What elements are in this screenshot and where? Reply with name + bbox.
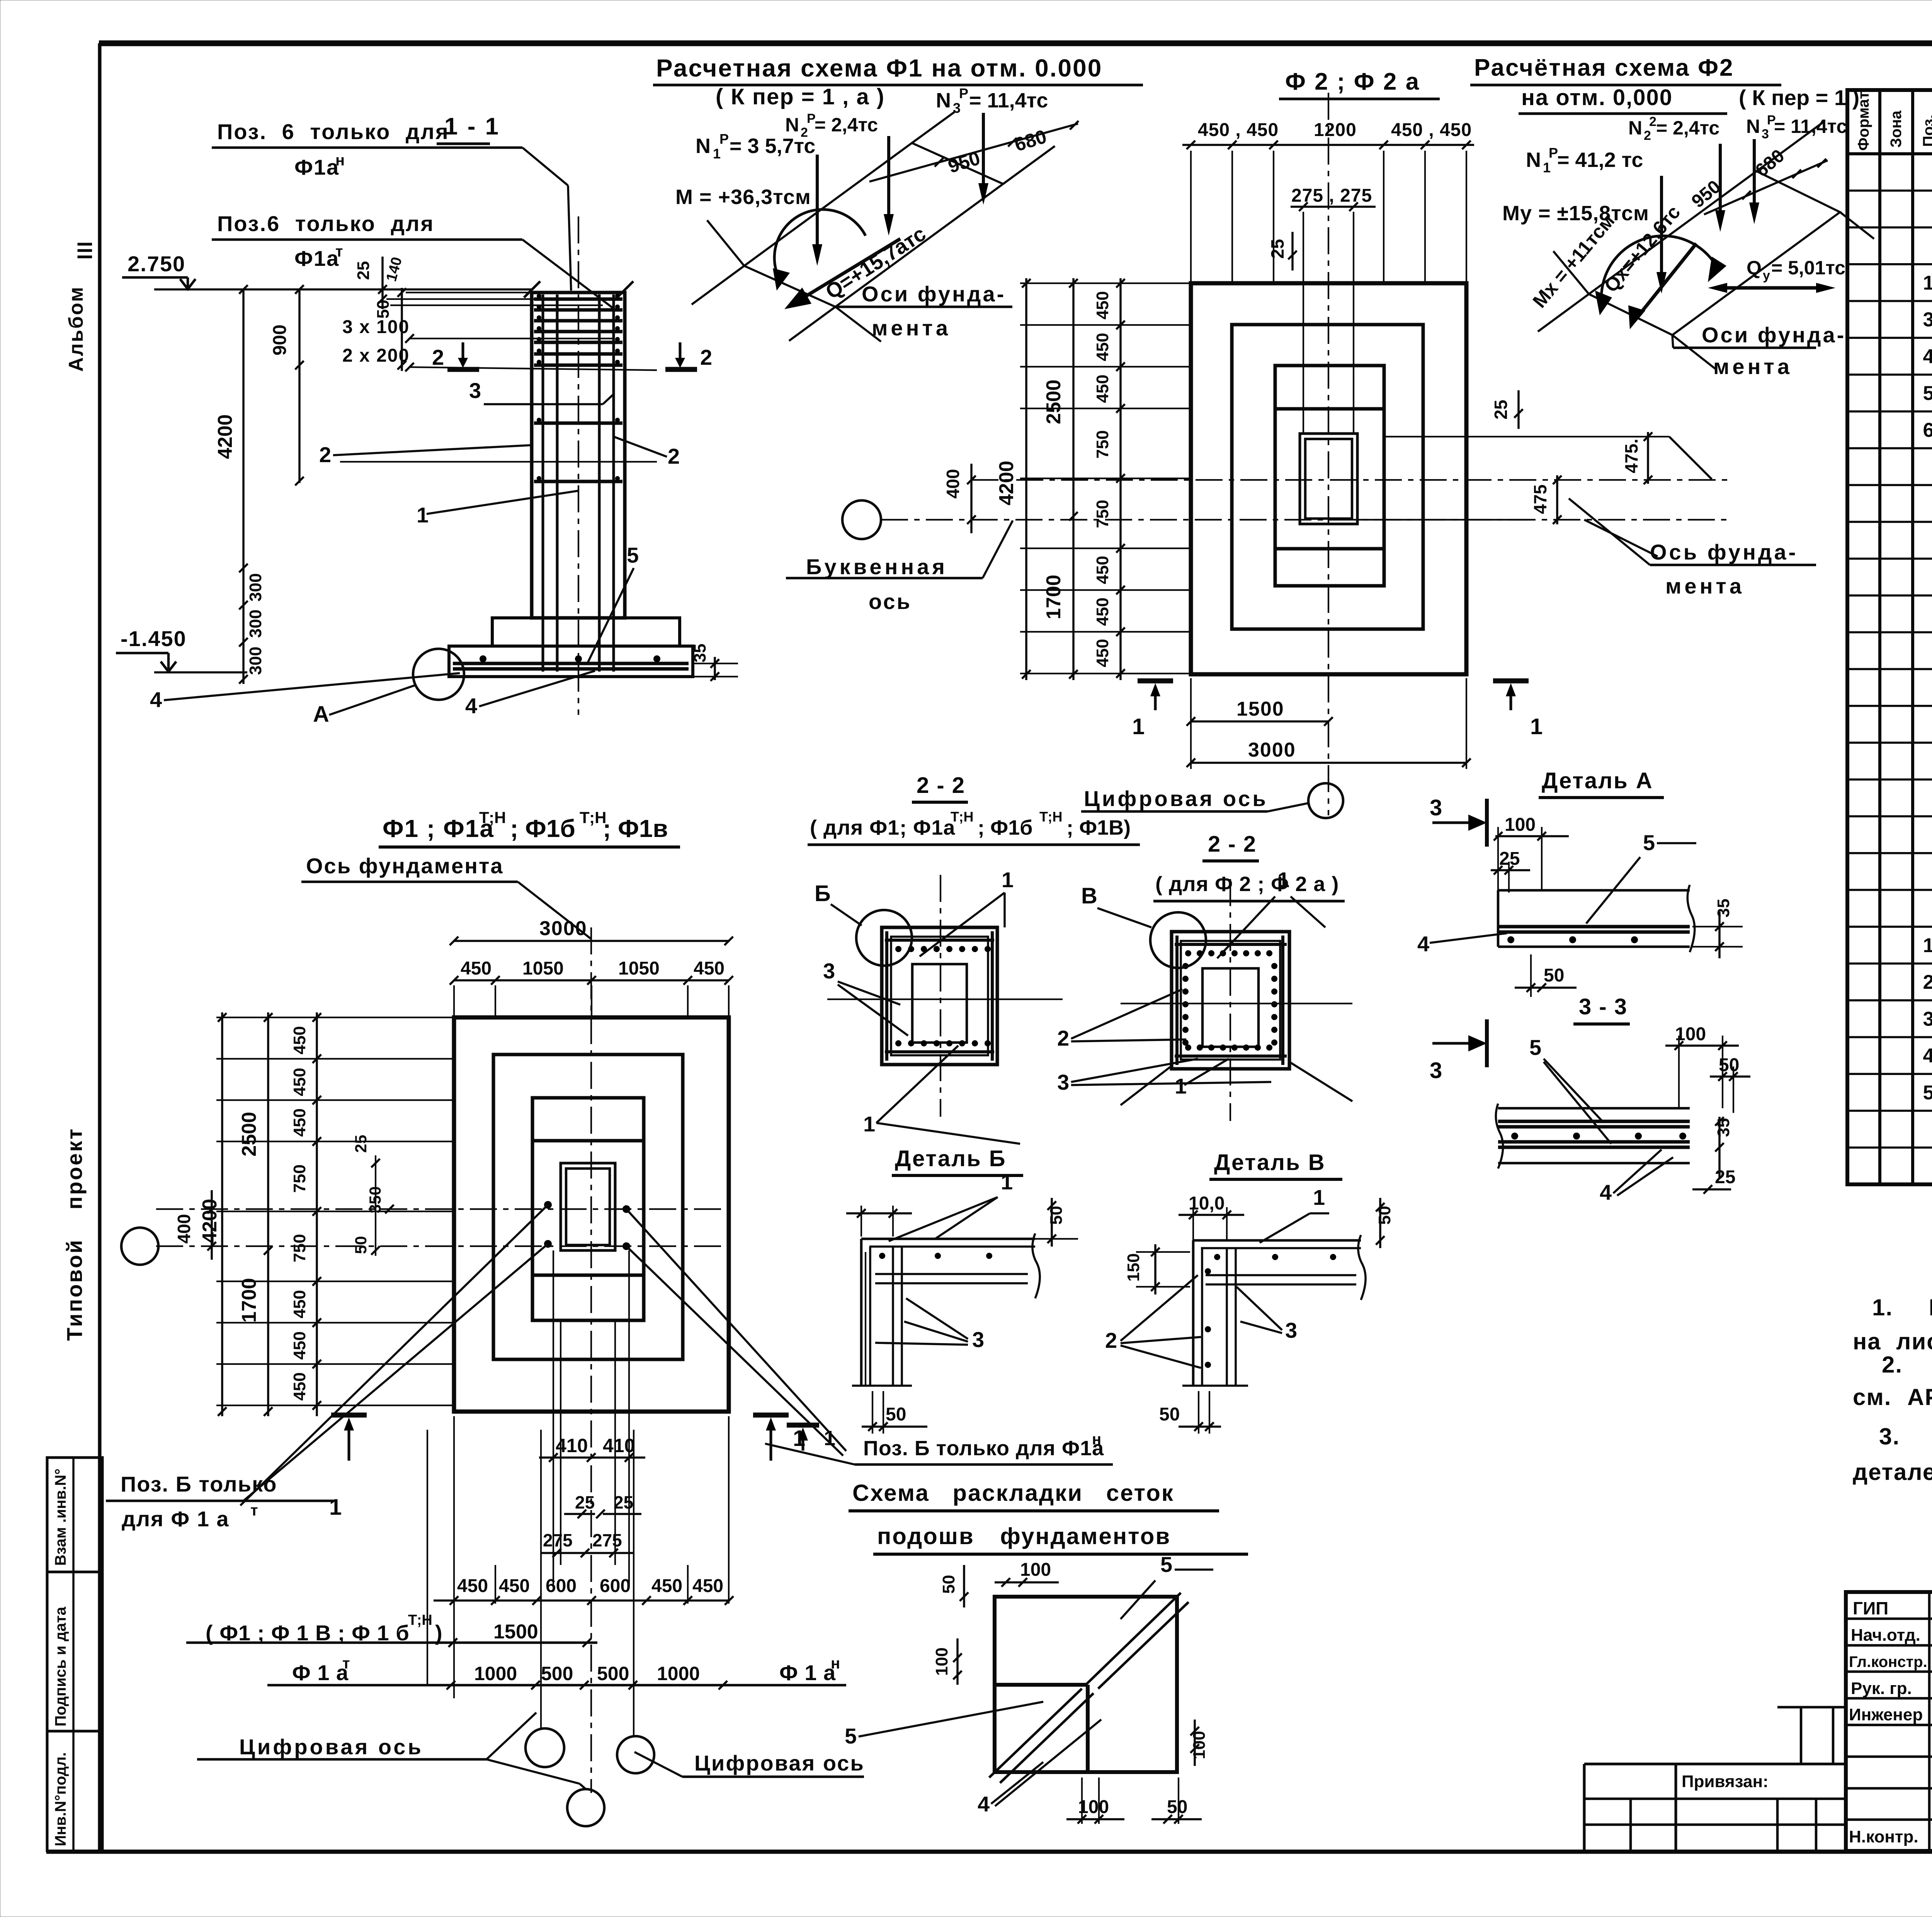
svg-text:Ф1 ; Ф1а: Ф1 ; Ф1а (383, 815, 494, 842)
svg-text:450: 450 (461, 958, 492, 979)
svg-text:Гл.констр.: Гл.констр. (1849, 1653, 1927, 1670)
letter axis circle plan F2 (842, 500, 881, 539)
svg-text:4200: 4200 (995, 461, 1018, 505)
svg-text:2: 2 (1644, 128, 1651, 143)
detail A leader 5 (1586, 830, 1696, 924)
svg-text:450: 450 (1093, 333, 1112, 361)
svg-text:100: 100 (932, 1647, 951, 1675)
svg-text:2500: 2500 (238, 1112, 260, 1157)
svg-text:Альбом: Альбом (65, 286, 87, 372)
svg-text:50: 50 (352, 1236, 370, 1254)
section 2-2 second rebar dots (1182, 950, 1277, 1051)
svg-text:450: 450 (692, 1576, 723, 1596)
plan F2 middle rectangle (1232, 325, 1423, 629)
svg-text:Деталь Б: Деталь Б (895, 1146, 1006, 1171)
svg-text:N: N (785, 114, 799, 136)
svg-text:( К пер = 1 ): ( К пер = 1 ) (1739, 85, 1859, 110)
margin stamp box Podpis i data (47, 1572, 102, 1731)
svg-text:= 5,01тс: = 5,01тс (1771, 257, 1845, 279)
svg-text:Поз.6 только для: Поз.6 только для (217, 211, 434, 236)
svg-text:400: 400 (174, 1214, 194, 1244)
plan F2 dim 275 275 (1291, 185, 1376, 434)
svg-text:3: 3 (1762, 127, 1769, 141)
notes line 3 (1882, 1352, 1932, 1378)
svg-text:Поз.: Поз. (1920, 114, 1932, 147)
spec table header (1855, 92, 1932, 151)
svg-text:н: н (335, 152, 345, 169)
svg-text:Т;Н: Т;Н (479, 808, 506, 827)
plan F1 middle rectangle (493, 1055, 683, 1359)
svg-text:Формат: Формат (1855, 92, 1872, 151)
svg-text:2 - 2: 2 - 2 (1208, 832, 1257, 857)
svg-text:5: 5 (1643, 830, 1655, 855)
scheme F1 platform (692, 112, 1055, 342)
level mark 2.750 (122, 252, 532, 289)
column footing step (492, 618, 680, 646)
svg-text:Поз. Б только для Ф1а: Поз. Б только для Ф1а (863, 1437, 1104, 1460)
svg-text:275: 275 (592, 1530, 622, 1550)
svg-text:1000: 1000 (474, 1663, 517, 1684)
section 3-3 title (1573, 994, 1630, 1024)
detail V dims top (1179, 1193, 1244, 1240)
section 2-2 second box (1172, 932, 1289, 1069)
notes line 4 (1853, 1384, 1932, 1410)
svg-text:Ось фундамента: Ось фундамента (306, 854, 504, 878)
svg-text:450: 450 (694, 958, 724, 979)
detail V leader 1 (1260, 1185, 1329, 1243)
svg-text:Цифровая ось: Цифровая ось (1084, 786, 1268, 811)
plan F1 dim 1500 row (186, 1638, 597, 1647)
plan F2 horizontal axes (881, 480, 1727, 520)
svg-text:M = +36,3тсм: M = +36,3тсм (675, 185, 811, 209)
detail circle A (313, 649, 464, 727)
plan F2 dim 25 (1267, 232, 1297, 270)
plan F1 label F1 F1v F1b row (206, 1612, 538, 1645)
svg-text:): ) (435, 1621, 442, 1645)
margin stamp box Vzam inv No (47, 1458, 102, 1572)
svg-text:300: 300 (246, 573, 265, 601)
svg-text:Инв.N°подл.: Инв.N°подл. (52, 1752, 69, 1846)
svg-text:750: 750 (290, 1234, 309, 1262)
svg-text:4: 4 (465, 694, 477, 718)
svg-text:1050: 1050 (522, 958, 564, 979)
dimension 50/25/140 near column top (354, 255, 614, 371)
svg-text:3: 3 (1923, 1008, 1932, 1030)
svg-text:Зона: Зона (1888, 110, 1905, 148)
svg-text:Ф 2 ; Ф 2 а: Ф 2 ; Ф 2 а (1285, 68, 1420, 95)
svg-text:50: 50 (1544, 965, 1564, 986)
svg-text:N: N (1526, 148, 1541, 172)
svg-text:3: 3 (1057, 1070, 1069, 1094)
svg-text:Б: Б (815, 881, 831, 906)
plan F1 outer rectangle (454, 1017, 729, 1412)
dimension 35 footing (690, 644, 738, 681)
margin label Tipovoy proekt (62, 1127, 87, 1341)
svg-text:( для Ф1; Ф1а: ( для Ф1; Ф1а (810, 816, 955, 839)
section 3-3 dims (1665, 1024, 1750, 1113)
svg-text:3. Разбивка дополнительных з: 3. Разбивка дополнительных закладных (1879, 1424, 1932, 1449)
svg-text:1: 1 (713, 146, 721, 162)
svg-text:1. Ведомость расхода стали: 1. Ведомость расхода стали на фундаменты… (1872, 1294, 1932, 1320)
svg-text:Рук. гр.: Рук. гр. (1851, 1679, 1912, 1698)
calc scheme F1 subtitle (716, 84, 885, 109)
mesh layout square (989, 1593, 1189, 1783)
detail V drawing (1182, 1235, 1366, 1386)
section mark 3 lower (1430, 1019, 1487, 1083)
svg-text:1700: 1700 (238, 1278, 260, 1323)
svg-text:4: 4 (1600, 1180, 1612, 1204)
svg-text:4200: 4200 (214, 414, 236, 459)
detail V dim 50 right (1375, 1198, 1394, 1248)
svg-text:3: 3 (1923, 309, 1932, 331)
svg-text:3000: 3000 (539, 917, 587, 940)
label Poz.6 tolko dlya F1an (212, 119, 571, 291)
section 2-2 first axes (827, 875, 1063, 1117)
svg-text:P: P (1549, 145, 1558, 161)
svg-text:300: 300 (246, 646, 265, 675)
plan F1 dim 400 left (174, 1190, 216, 1260)
svg-text:100: 100 (1505, 815, 1536, 835)
svg-text:450: 450 (290, 1068, 309, 1096)
plan F2 section mark 1 left (1132, 681, 1173, 739)
svg-text:; Ф1б: ; Ф1б (510, 815, 575, 842)
svg-text:Расчётная схема Ф2: Расчётная схема Ф2 (1474, 54, 1734, 81)
plan F1 horizontal axes (156, 1209, 729, 1246)
svg-text:5: 5 (1923, 382, 1932, 405)
svg-text:600: 600 (600, 1576, 631, 1596)
scheme F2 platform (1538, 122, 1874, 369)
svg-text:2 - 2: 2 - 2 (917, 773, 965, 798)
svg-text:Ф 1 а: Ф 1 а (779, 1660, 836, 1685)
section 2-2 first title (808, 773, 1140, 845)
label Poz.6 tolko dlya F1at (106, 1472, 333, 1531)
svg-text:В: В (1081, 883, 1097, 908)
svg-text:25: 25 (1491, 400, 1511, 419)
plan F1 left chain 450s (216, 1012, 454, 1416)
svg-text:подошв фундаментов: подошв фундаментов (877, 1523, 1171, 1549)
svg-text:2: 2 (1057, 1026, 1069, 1050)
svg-text:4200: 4200 (199, 1199, 221, 1243)
column horizontal mesh bars (534, 299, 622, 481)
detail V dim 150 (1124, 1244, 1190, 1294)
svg-text:2: 2 (432, 345, 444, 369)
force arrow N2 F2 (1715, 144, 1725, 232)
plan F2 top dimension 450 450 1200 450 450 (1182, 120, 1474, 283)
svg-text:275: 275 (543, 1530, 573, 1550)
svg-text:Q: Q (1747, 257, 1762, 279)
mesh bar hooks (537, 294, 620, 481)
svg-text:2500: 2500 (1043, 379, 1065, 424)
section 2-2 first rebar dots (895, 946, 991, 1046)
detail V leader 2 (1105, 1275, 1201, 1368)
svg-text:5: 5 (1923, 1082, 1932, 1104)
svg-text:5: 5 (845, 1724, 857, 1748)
svg-text:Н.контр.: Н.контр. (1849, 1827, 1918, 1846)
svg-text:3: 3 (972, 1327, 984, 1352)
title block signatures column (1849, 1598, 1932, 1846)
svg-text:1: 1 (1313, 1185, 1325, 1209)
plan F2 dim 475 475 right (1357, 432, 1712, 556)
plan F1 pilaster rectangle (532, 1098, 644, 1320)
detail V dim 50 bottom (1159, 1391, 1221, 1434)
svg-text:750: 750 (290, 1164, 309, 1192)
shear arrow Q (784, 222, 930, 309)
svg-text:1200: 1200 (1314, 120, 1357, 140)
moment arc My (1595, 236, 1726, 315)
leader 2 right (614, 437, 680, 468)
svg-text:( К пер = 1 , а ): ( К пер = 1 , а ) (716, 84, 885, 109)
force arrow N3 F2 (1749, 139, 1759, 224)
notes line 5 (1879, 1424, 1932, 1449)
dimension 3x100 (342, 317, 614, 343)
svg-text:Т;Н: Т;Н (951, 809, 974, 825)
svg-text:Поз. Б только: Поз. Б только (121, 1472, 277, 1496)
svg-text:150: 150 (1124, 1253, 1143, 1281)
column vertical rebars (543, 294, 614, 672)
svg-text:н: н (831, 1655, 840, 1672)
svg-text:1: 1 (1277, 867, 1289, 892)
svg-text:3 - 3: 3 - 3 (1579, 994, 1628, 1019)
svg-text:( Ф1 ; Ф 1 В ; Ф 1 б: ( Ф1 ; Ф 1 В ; Ф 1 б (206, 1621, 410, 1645)
svg-text:проект: проект (62, 1127, 87, 1209)
force N3 label F2 (1746, 113, 1847, 141)
detail A slab (1498, 885, 1695, 952)
svg-text:50: 50 (939, 1575, 958, 1594)
svg-text:Взам .инв.N°: Взам .инв.N° (52, 1468, 69, 1566)
plan F1 vertical axis (590, 927, 592, 1793)
detail A leader 4 (1417, 932, 1507, 956)
detail A dim 50 (1515, 954, 1577, 997)
section 3-3 leader 4 (1600, 1150, 1673, 1204)
svg-text:2: 2 (1923, 971, 1932, 993)
svg-text:Инженер: Инженер (1849, 1705, 1923, 1724)
svg-text:деталей фундаментов дана на: деталей фундаментов дана на листе 13. (1853, 1459, 1932, 1485)
svg-text:1: 1 (863, 1112, 875, 1136)
svg-text:= 11,4тс: = 11,4тс (969, 89, 1048, 112)
section 2-2 second leaders (1057, 867, 1352, 1105)
plan F1 leader to Poz6 F1at (240, 1205, 548, 1505)
notes line 6 (1853, 1459, 1932, 1485)
svg-text:35: 35 (690, 644, 709, 663)
axis label Os fundamenta right (1569, 498, 1816, 598)
svg-text:2: 2 (319, 442, 331, 467)
detail V leader 3 (1236, 1287, 1297, 1342)
calc scheme F2 title (1470, 54, 1859, 114)
svg-text:450: 450 (290, 1108, 309, 1136)
plan F2 dim 25 right (1491, 390, 1523, 429)
detail B dim 50 right (1028, 1198, 1078, 1247)
svg-text:2: 2 (668, 444, 680, 468)
svg-text:N: N (1746, 116, 1760, 137)
plan F2 left chain 4200 2500 1700 (995, 278, 1078, 680)
moment M label (675, 185, 811, 209)
svg-text:1: 1 (1543, 160, 1551, 175)
plan F2 section mark 1 right (1493, 681, 1543, 739)
svg-text:Оси фунда-: Оси фунда- (862, 282, 1006, 306)
shear Qy arrow (1708, 257, 1845, 293)
svg-text:1700: 1700 (1043, 575, 1065, 619)
svg-text:5: 5 (1160, 1552, 1172, 1577)
svg-text:1050: 1050 (618, 958, 660, 979)
svg-text:Мy = ±15,8тсм: Мy = ±15,8тсм (1502, 202, 1649, 225)
svg-text:1: 1 (1132, 714, 1145, 739)
plan F1 anchor dots (544, 1201, 630, 1250)
detail B drawing (852, 1233, 1040, 1386)
svg-text:А: А (313, 702, 329, 727)
bottom left small boxes (1584, 1764, 1676, 1851)
svg-text:4: 4 (1417, 932, 1429, 956)
plan F2 vertical axis (1328, 93, 1329, 815)
section mark 2 left (432, 342, 479, 369)
svg-text:Деталь В: Деталь В (1214, 1150, 1326, 1175)
svg-text:Т;Н: Т;Н (408, 1612, 432, 1628)
svg-text:2. Указания по составу бето: 2. Указания по составу бетона и его плот… (1882, 1352, 1932, 1378)
dimension chain 4200/300s (214, 285, 265, 684)
force N2 label (785, 111, 878, 140)
plan F1 dim 275 275 (541, 1530, 634, 1557)
svg-text:1: 1 (1923, 934, 1932, 957)
svg-text:1500: 1500 (493, 1621, 538, 1643)
svg-text:на листе 12 .: на листе 12 . (1853, 1328, 1932, 1354)
digital axis circles (526, 1728, 654, 1826)
label Poz.6 only F1an bottom (765, 1431, 1113, 1465)
section 2-2 first leaders (823, 867, 1020, 1144)
axes label F1 osi fundamenta (835, 282, 1012, 340)
svg-text:Расчетная схема Ф1 на о: Расчетная схема Ф1 на отм. 0.000 (656, 54, 1102, 82)
svg-text:Подпись и дата: Подпись и дата (52, 1606, 69, 1726)
detail B dims top (846, 1206, 912, 1237)
svg-text:1000: 1000 (657, 1663, 700, 1684)
svg-text:2.750: 2.750 (128, 252, 185, 276)
spec table body text (1923, 158, 1932, 1178)
mesh layout dims (845, 1552, 1213, 1824)
moment Mx label rotated (1529, 210, 1619, 312)
svg-text:50: 50 (886, 1404, 906, 1425)
svg-text:25: 25 (1267, 239, 1287, 259)
plan F2 pilaster rectangle (1275, 366, 1384, 586)
title block grid (1846, 1592, 1932, 1851)
svg-text:; Ф1в: ; Ф1в (603, 815, 668, 842)
svg-text:500: 500 (541, 1663, 573, 1684)
plan F2 dim 400 (943, 464, 976, 533)
section 1-1 title (437, 113, 500, 144)
svg-text:450: 450 (1093, 597, 1112, 626)
plan F2 left chain 450s (1020, 278, 1191, 680)
column footing base (449, 646, 693, 677)
svg-text:Ф1а: Ф1а (294, 246, 339, 270)
plan F1 dim 450 1050 1050 450 (450, 958, 733, 1017)
svg-text:100: 100 (1020, 1560, 1051, 1580)
svg-text:P: P (959, 85, 968, 101)
section 2-2 second title (1153, 832, 1345, 901)
svg-text:4: 4 (150, 687, 162, 712)
svg-text:2: 2 (801, 125, 808, 140)
section mark 1 near poz6 (787, 1425, 835, 1451)
force N3 label (936, 85, 1048, 116)
svg-text:50: 50 (1167, 1797, 1187, 1817)
detail circle V marker (1081, 883, 1206, 968)
leader 1 center (417, 491, 578, 527)
section 3-3 dim 35 25 (1692, 1117, 1735, 1194)
plan F2 dim 3000 (1187, 739, 1471, 767)
svg-text:25: 25 (354, 261, 373, 280)
svg-text:ось: ось (869, 589, 912, 614)
svg-text:1: 1 (1002, 867, 1014, 892)
svg-text:600: 600 (546, 1576, 577, 1596)
detail B leader 3 (875, 1298, 984, 1352)
plan F1 dim 3000 (450, 917, 733, 945)
detail B dim 50 bottom (862, 1391, 927, 1434)
svg-text:Ф 1 а: Ф 1 а (292, 1660, 349, 1685)
leader 2 left (319, 442, 532, 467)
svg-text:N: N (936, 89, 951, 112)
svg-text:N: N (696, 134, 711, 158)
svg-text:( для Ф 2 ; Ф 2 а ): ( для Ф 2 ; Ф 2 а ) (1155, 873, 1339, 896)
svg-text:475.: 475. (1621, 439, 1641, 473)
svg-text:мента: мента (1713, 354, 1793, 379)
svg-text:4: 4 (978, 1792, 990, 1816)
section 2-2 second axes (1121, 879, 1352, 1121)
section 3-3 leader 5 (1529, 1035, 1611, 1144)
detail B title (892, 1146, 1023, 1175)
svg-text:н: н (1092, 1431, 1101, 1448)
leader 4 right (465, 671, 595, 718)
force arrow N1 F2 (1656, 176, 1667, 294)
privyazan box (1676, 1707, 1846, 1851)
svg-text:Ф1а: Ф1а (294, 155, 339, 179)
svg-text:450: 450 (290, 1290, 309, 1318)
svg-text:6: 6 (1923, 419, 1932, 441)
calc scheme F1 title (653, 54, 1143, 85)
column outline section 1-1 (524, 281, 633, 618)
dimension chain 900 (270, 285, 304, 485)
shear Qx arrow (1600, 201, 1696, 329)
svg-text:680: 680 (1012, 126, 1049, 156)
detail V title (1209, 1150, 1342, 1179)
section 3-3 slab (1496, 1104, 1690, 1169)
svg-text:; Ф1б: ; Ф1б (978, 816, 1032, 839)
svg-text:410: 410 (556, 1435, 588, 1456)
svg-text:Нач.отд.: Нач.отд. (1851, 1626, 1920, 1645)
spec table grid (1847, 90, 1932, 1184)
dimension 2x200 (340, 345, 657, 462)
svg-text:-1.450: -1.450 (121, 626, 187, 651)
svg-text:2: 2 (1105, 1328, 1117, 1352)
plan F1 group title (379, 808, 680, 847)
svg-text:450 , 450: 450 , 450 (1198, 120, 1279, 140)
svg-text:Типовой: Типовой (62, 1238, 87, 1341)
svg-text:450: 450 (290, 1372, 309, 1400)
svg-text:Буквенная: Буквенная (806, 555, 948, 579)
svg-text:1500: 1500 (1236, 698, 1284, 720)
level mark -1.450 (116, 626, 247, 672)
svg-text:1: 1 (1530, 714, 1543, 739)
leader 3 column ties (469, 378, 614, 404)
leader 4 left (150, 673, 460, 712)
axis label Bukvennaya os (786, 520, 1013, 614)
svg-text:140: 140 (383, 255, 405, 283)
svg-text:3: 3 (1430, 1058, 1442, 1083)
svg-text:500: 500 (597, 1663, 629, 1684)
svg-text:450: 450 (1093, 374, 1112, 403)
plan F1 section mark 1 left (329, 1415, 367, 1520)
label Cifrovaya os right (634, 1751, 865, 1777)
svg-text:1 - 1: 1 - 1 (444, 113, 500, 140)
mesh layout title (849, 1480, 1248, 1554)
plan F1 dim 410 410 (539, 1435, 645, 1462)
svg-text:Ось фунда-: Ось фунда- (1650, 540, 1798, 564)
svg-text:25: 25 (352, 1135, 370, 1153)
